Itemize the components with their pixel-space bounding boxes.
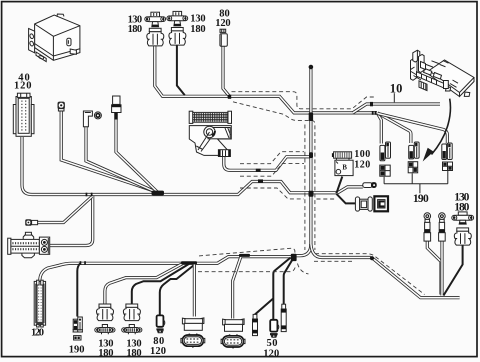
connector 40/120 — [13, 93, 34, 136]
tick 10 — [393, 93, 395, 102]
dashed below mid lower branch — [240, 188, 304, 199]
svg-text:120: 120 — [14, 81, 32, 92]
dashed bottom boundary horizontal — [198, 266, 296, 272]
wire bottom trunk — [40, 257, 294, 281]
junction blob trunk mid — [309, 191, 314, 197]
dashed harness boundary lower along top harness into right trunk side — [233, 102, 315, 250]
junction bar mid lower branch — [258, 179, 263, 182]
wire main left trunk from connector 40/120 to junction J1 and across to vertical trunk — [22, 137, 336, 195]
temperature sensor S3 (right) — [452, 212, 474, 245]
wire thin connector C254 branch — [255, 299, 273, 315]
thin connector C254 — [253, 314, 258, 335]
oval connector O1 — [181, 334, 205, 348]
node dot bottom-right branch — [370, 256, 374, 260]
big connector B2 — [223, 319, 245, 331]
wire top sensor T2 drop — [177, 46, 185, 96]
ring terminal R1 — [424, 213, 431, 241]
arrow from fuse box to plug P2 — [423, 99, 451, 162]
plug assembly P3 — [442, 143, 453, 171]
connector 80/120 (bottom) — [156, 315, 164, 332]
connector CA — [355, 197, 372, 211]
svg-text:180: 180 — [190, 24, 205, 35]
dashed right of trunk below node N1 — [317, 198, 336, 200]
svg-text:120: 120 — [31, 328, 44, 339]
junction bar bottom trunk left — [181, 261, 197, 264]
wire connector 190 drop — [77, 264, 80, 317]
svg-text:180: 180 — [126, 348, 141, 359]
junction blob top harness — [228, 95, 231, 99]
junction blob J1 left harness — [152, 191, 165, 196]
wire top harness from sensor T1 across to 10-line — [155, 46, 377, 113]
wire fan 2 to plug P2 — [378, 113, 411, 143]
svg-text:190: 190 — [69, 345, 85, 356]
elbow connector — [83, 111, 101, 127]
wire ring terminal R1 — [427, 241, 441, 295]
inline connector — [25, 219, 37, 226]
dashed left side of vertical trunk — [304, 125, 306, 251]
wire top connector 80/120 drop — [223, 47, 230, 97]
svg-text:180: 180 — [128, 24, 143, 35]
wire inline connector to trunk — [38, 197, 92, 223]
wire fan 3 to plug P3 — [378, 114, 447, 144]
wire elbow connector to junction J1 — [86, 127, 158, 193]
wire cylinder feed from trunk — [50, 196, 93, 246]
node dot top of vertical trunk — [309, 65, 314, 70]
wire bottom sensor S1 — [105, 264, 183, 304]
fuse relay box (isometric) — [411, 50, 475, 96]
svg-text:120: 120 — [215, 18, 230, 29]
bracket 190 group — [384, 171, 448, 193]
cylinder bulkhead connector — [8, 232, 50, 257]
wire thin connector C283 drop — [284, 258, 294, 305]
wire big connector B1 drop — [193, 264, 196, 317]
thin connector C283 — [281, 304, 286, 331]
wire trunk elbow left — [295, 244, 311, 256]
junction ticks bottom trunk — [80, 261, 82, 265]
grid cooler element — [189, 111, 231, 123]
temperature sensor T2 (top) — [167, 11, 188, 45]
wire connector CA link — [336, 194, 355, 204]
svg-text:B: B — [342, 165, 347, 172]
big connector B1 — [182, 318, 204, 330]
svg-text:180: 180 — [454, 201, 469, 213]
bullet connector — [363, 182, 377, 188]
oval connector O2 — [221, 334, 245, 348]
dashed corner at trunk foot — [298, 264, 309, 274]
wire ring terminal R2 — [440, 241, 443, 296]
small connector with cross — [58, 102, 65, 111]
svg-text:120: 120 — [354, 160, 370, 171]
wire small connector to junction J1 — [61, 111, 158, 192]
dashed harness boundary upper along top harness — [232, 92, 377, 109]
wire bottom connector 80/120 — [160, 265, 195, 316]
dashed right of trunk foot — [314, 260, 352, 262]
ring terminal R2 — [439, 213, 446, 241]
connector 50/120 — [270, 320, 279, 337]
wire connector 50/120 drop — [273, 258, 290, 321]
connector 190 (bottom) — [73, 317, 83, 340]
relay 100/120 strip connector — [332, 152, 352, 160]
svg-text:120: 120 — [150, 346, 166, 357]
dashed above mid upper branch — [240, 152, 304, 164]
junction blob trunk x top — [309, 112, 313, 121]
junction blob trunk upper-branch — [309, 152, 313, 158]
junction bar mid upper branch — [256, 169, 261, 172]
control module box (isometric) — [29, 14, 80, 62]
junction ticks left trunk — [86, 193, 88, 197]
wire rise branch to 10-line — [353, 104, 441, 113]
temperature sensor T1 (top) — [145, 12, 166, 46]
svg-text:120: 120 — [263, 348, 279, 359]
wire bullet link from node N1 — [336, 187, 363, 194]
svg-text:190: 190 — [413, 193, 429, 205]
svg-text:180: 180 — [98, 348, 113, 359]
wire relay link — [336, 177, 342, 194]
wire bottom sensor S2 — [132, 264, 189, 304]
wire vertical trunk — [309, 69, 312, 248]
svg-text:10: 10 — [390, 81, 403, 95]
DASHED — [198, 92, 425, 295]
connector 120 (bottom left, multipin) — [34, 280, 45, 327]
wire bottom-right diagonal run — [373, 258, 460, 298]
temperature sensor S2 (bottom) — [122, 304, 142, 334]
wire big connector B2 drop — [233, 257, 241, 319]
column connector — [112, 96, 121, 120]
junction bar bottom trunk mid — [239, 254, 250, 257]
dashed bottom boundary rising — [199, 248, 295, 258]
wire fan 1 to plug P1 — [377, 113, 381, 144]
wire column connector to junction J1 — [116, 113, 158, 193]
svg-text:100: 100 — [354, 149, 370, 160]
junction ticks fan origin — [372, 111, 374, 115]
temperature sensor S1 (bottom, plug above element) — [95, 304, 115, 334]
relay 100/120 body — [335, 160, 353, 175]
junction blob trunk bottom — [291, 254, 297, 261]
junction blob 10-line — [370, 102, 373, 106]
wire actuator feed joining mid upper branch — [224, 157, 311, 171]
plug assembly P2 — [408, 142, 419, 173]
connector 80/120 (top) — [220, 29, 227, 46]
wire trunk elbow right to bottom-right run — [311, 244, 371, 258]
connector CB — [374, 196, 388, 211]
wire sensor S3 — [444, 245, 463, 296]
dashed below mid upper branch — [240, 163, 304, 176]
actuator with connector — [189, 126, 231, 157]
plug assembly P1 — [380, 142, 391, 176]
